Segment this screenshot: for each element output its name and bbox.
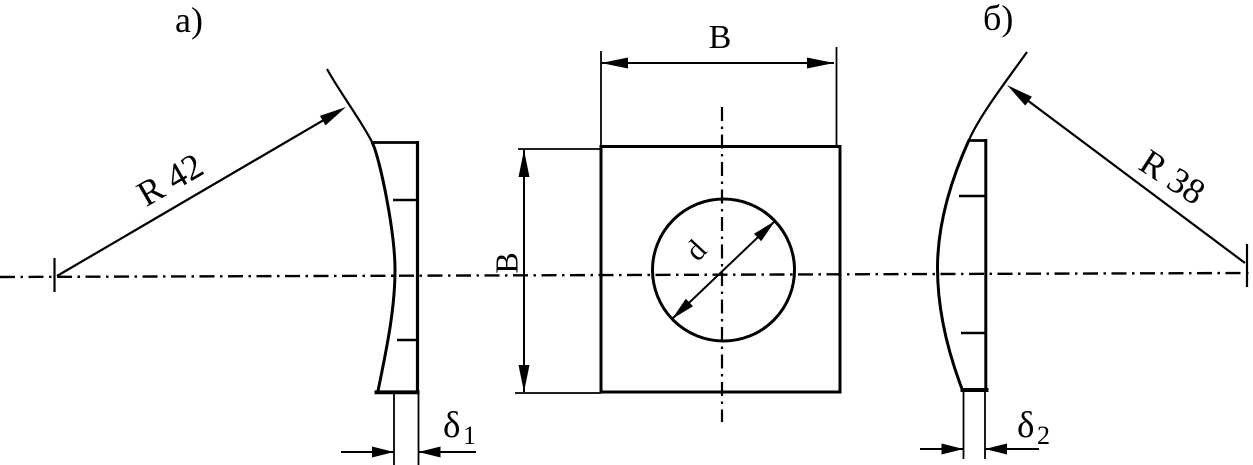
lens a surface tick upper [393,199,418,202]
delta1 arrow left [372,447,394,458]
lens b left surface arc extension [969,52,1027,140]
B top arrow left [601,58,628,69]
hole circle [653,199,795,341]
lens a left concave surface [372,142,395,391]
lens b bottom edge [961,388,989,392]
B left arrow top [519,150,530,177]
B left extension line bottom [515,392,601,394]
lens a bottom edge [375,390,420,394]
delta1 extension line left [393,394,395,465]
svg-text:d: d [679,234,713,267]
R38 center tick [1246,244,1248,287]
B top arrow right [807,58,834,69]
B top extension line left [600,51,602,146]
delta2 extension line left [963,392,965,459]
delta2 dim line right [985,448,1039,450]
B top extension line right [836,47,838,146]
B left arrow bottom [519,365,530,392]
R38 leader line [1013,90,1245,264]
d dimension line [672,221,775,319]
lens a surface tick lower [397,339,418,342]
svg-text:a): a) [175,0,203,40]
B left dimension line [523,150,525,392]
square plate [601,147,840,393]
R42 center tick [53,258,55,292]
lens b flat right edge [984,139,987,392]
d arrow upper [754,221,775,241]
lens a top edge [371,141,419,144]
lens b surface tick upper [959,195,986,198]
delta1 dim line left [341,451,394,453]
delta1 dim line right [419,451,477,453]
svg-text:R 42: R 42 [130,145,210,214]
delta2 extension line right [984,392,986,459]
svg-text:δ: δ [1017,405,1034,446]
d arrow lower [672,299,693,319]
R42 arrowhead [320,107,346,125]
lens b surface tick lower [961,332,986,335]
svg-text:B: B [709,19,732,56]
R42 leader line [57,111,340,277]
svg-text:б): б) [983,0,1013,38]
delta1 arrow right [419,447,441,458]
optical axis centerline [0,273,1253,277]
B top dimension line [601,62,834,64]
lens a flat right edge [416,141,419,394]
lens b convex left surface [938,140,970,389]
svg-text:δ: δ [443,405,460,446]
R38 arrowhead [1007,85,1032,106]
svg-text:2: 2 [1037,421,1050,450]
lens a left surface arc extension [327,69,372,142]
delta1 extension line right [418,394,420,465]
delta2 dim line left [920,448,964,450]
svg-text:1: 1 [463,421,476,450]
delta2 arrow left [942,444,964,455]
svg-text:B: B [488,252,524,273]
plate vertical centerline [721,107,723,422]
delta2 arrow right [985,444,1007,455]
lens b top edge [968,139,987,142]
svg-text:R 38: R 38 [1133,141,1213,212]
B left extension line top [518,148,601,150]
